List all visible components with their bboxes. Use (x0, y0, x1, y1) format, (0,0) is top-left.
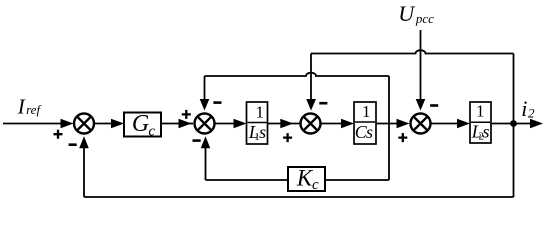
svg-text:1: 1 (362, 102, 371, 121)
svg-text:s: s (259, 122, 266, 142)
svg-text:pcc: pcc (415, 11, 434, 26)
svg-text:s: s (366, 122, 373, 142)
svg-text:G: G (132, 111, 149, 137)
svg-text:1: 1 (476, 102, 485, 121)
svg-text:c: c (312, 177, 319, 193)
svg-text:2: 2 (528, 105, 535, 120)
svg-text:1: 1 (256, 102, 265, 121)
svg-text:I: I (17, 95, 26, 119)
svg-text:c: c (148, 123, 155, 139)
svg-text:s: s (483, 121, 490, 141)
svg-text:ref: ref (26, 102, 42, 117)
svg-text:U: U (398, 1, 416, 26)
svg-text:i: i (521, 96, 527, 121)
